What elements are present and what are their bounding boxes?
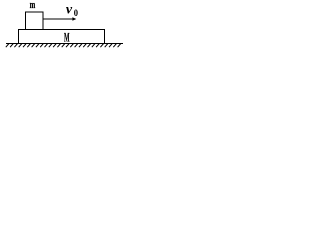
- velocity arrow: [43, 18, 73, 20]
- svg-text:m: m: [30, 0, 36, 10]
- block M (large block): [19, 30, 105, 44]
- block m (small block on top): [26, 12, 44, 30]
- ground hatching: [6, 44, 121, 48]
- svg-text:0: 0: [74, 7, 79, 18]
- svg-text:v: v: [66, 3, 73, 18]
- ground line: [6, 43, 123, 45]
